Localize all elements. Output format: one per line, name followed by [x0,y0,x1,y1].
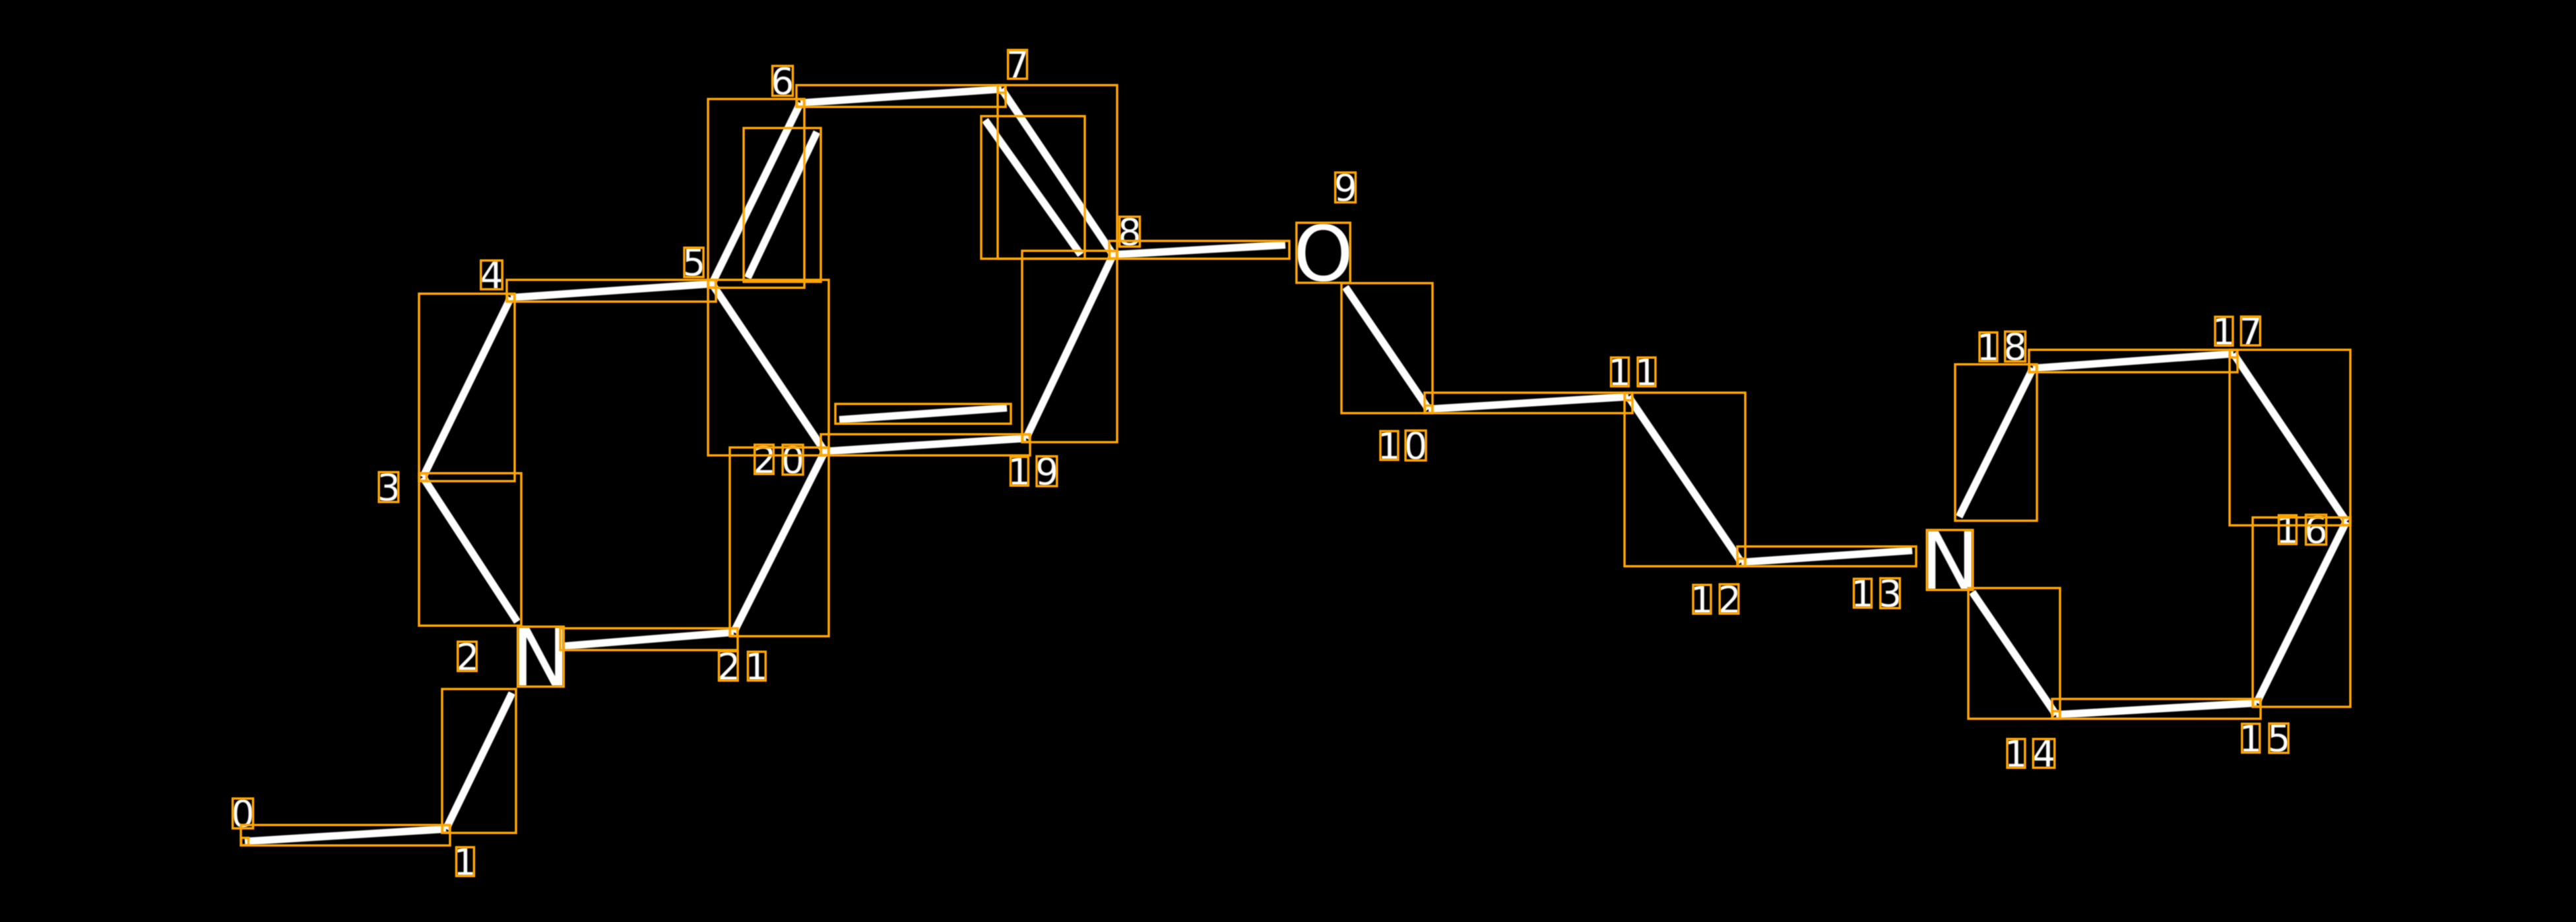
bbox label atom 12 digit 2 [1720,584,1739,613]
bbox atom 12 [1738,559,1745,566]
bbox bond 4-5 [507,280,716,302]
bbox atom 8 [1110,251,1117,259]
bbox bond 12-13 [1737,546,1916,566]
bond 7-8 [1002,89,1113,255]
bbox label atom 16 digit 6 [2306,515,2327,544]
bbox bond 20-5 [708,280,829,455]
bond 0-1 [245,829,446,841]
label atom 3 digit 3 [379,473,397,502]
bond 17-18 [2033,354,2234,368]
bbox bond 5-6 [708,99,804,288]
bbox atom 4 [507,294,515,302]
bbox atom 6 [797,100,804,107]
bbox label atom 20 digit 2 [755,445,774,474]
bbox bond 16-17 [2230,350,2350,525]
bbox double bond inner 7-8 [981,116,1085,259]
double bond inner line 19-20 [839,408,1007,420]
bbox label atom 12 digit 1 [1693,585,1711,614]
bbox label atom 14 digit 4 [2033,739,2054,768]
label atom 13 digit 3 [1881,579,1899,607]
bbox atom 20 [821,448,829,455]
bbox label atom 21 digit 1 [748,652,765,681]
bbox bond 10-11 [1425,393,1632,413]
bond 15-16 [2257,521,2346,703]
bbox label atom 18 digit 8 [2005,331,2026,361]
label atom 18 digit 8 [2006,333,2024,361]
bbox label atom 9 digit 9 [1336,172,1356,202]
bond 2-3 [423,477,517,622]
label atom 13 digit 1 [1855,579,1871,607]
label atom 21 digit 2 [720,652,737,680]
bbox label atom 5 digit 5 [684,247,703,277]
label atom 19 digit 9 [1037,457,1056,486]
bond 13-14 [1972,592,2056,715]
bond 18-13 [1959,368,2033,517]
bbox label atom 1 digit 1 [457,847,474,876]
label atom 21 digit 1 [749,653,765,680]
bbox label atom 13 digit 3 [1881,578,1900,608]
bbox label atom 15 digit 5 [2269,723,2288,752]
bbox double bond inner 5-6 [744,128,821,282]
bbox bond 8-19 [1022,251,1117,442]
bond 19-20 [825,438,1026,451]
bbox label atom 20 digit 0 [783,445,803,475]
bbox atom 19 [1023,435,1030,442]
double bond inner line 7-8 [985,120,1081,255]
bond 9-10 [1345,287,1429,409]
bond 20-5 [712,284,825,451]
bond 11-12 [1628,397,1741,562]
label atom 14 digit 4 [2034,740,2053,767]
bbox bond 18-13 [1955,364,2037,521]
label atom 10 digit 0 [1406,432,1425,460]
label atom 14 digit 1 [2008,740,2024,767]
bbox atom 15 [2253,700,2261,707]
label atom 17 digit 7 [2242,317,2259,345]
label atom 17 digit 1 [2216,317,2232,345]
label atom 20 digit 0 [783,445,802,474]
bond 6-7 [800,89,1002,103]
bbox atom 11 [1625,393,1632,401]
atom 2 symbol N [519,628,563,686]
bbox atom 3 [420,474,427,481]
bond 10-11 [1429,397,1628,409]
bbox bond 21-2 [560,628,738,650]
bbox atom 2 [518,627,564,687]
bond 8-19 [1026,255,1113,438]
bbox label atom 0 digit 0 [233,799,253,828]
label atom 20 digit 2 [756,445,773,473]
bbox label atom 21 digit 2 [719,651,738,680]
bbox atom 10 [1425,406,1433,413]
label atom 4 digit 4 [482,261,501,288]
bbox label atom 17 digit 7 [2241,317,2260,346]
label atom 16 digit 1 [2280,516,2296,543]
bbox bond 3-4 [419,294,515,481]
atom 13 symbol N [1928,531,1972,589]
bbox atom 17 [2230,350,2238,358]
label atom 8 digit 8 [1120,218,1139,246]
bbox label atom 11 digit 1 [1611,358,1629,387]
label atom 6 digit 6 [773,67,792,95]
bond 3-4 [423,298,511,477]
bbox atom 7 [998,86,1006,93]
bbox label atom 8 digit 8 [1120,216,1140,246]
bbox label atom 2 digit 2 [458,642,477,671]
bond 20-21 [734,451,825,632]
bbox label atom 3 digit 3 [379,472,399,502]
label atom 18 digit 1 [1980,333,1997,360]
double bond inner line 5-6 [748,132,817,278]
bbox atom 21 [730,629,738,636]
bbox bond 20-21 [730,447,829,636]
bbox bond 11-12 [1625,393,1745,566]
bbox bond 1-2 [442,689,516,833]
label atom 11 digit 1 [1638,358,1655,385]
label atom 19 digit 1 [1012,457,1028,484]
label atom 2 digit 2 [459,643,476,671]
bbox atom 0 [241,838,249,845]
bond 12-13 [1741,550,1912,562]
label atom 15 digit 1 [2243,725,2259,752]
bbox atom 14 [2053,711,2060,719]
bbox label atom 13 digit 1 [1854,579,1872,608]
bond 4-5 [511,284,712,298]
bond 14-15 [2056,703,2257,715]
bbox label atom 15 digit 1 [2242,724,2260,753]
bond 8-9 [1113,245,1285,255]
bbox label atom 16 digit 1 [2279,515,2297,544]
label atom 11 digit 1 [1612,358,1628,385]
bbox bond 9-10 [1341,283,1433,413]
label atom 12 digit 2 [1720,585,1737,613]
bbox label atom 4 digit 4 [481,261,502,290]
label atom 1 digit 1 [457,848,474,875]
bbox bond 13-14 [1968,588,2060,719]
bond 16-17 [2234,354,2346,521]
label atom 12 digit 1 [1694,585,1710,612]
label atom 5 digit 5 [685,248,703,276]
bbox label atom 19 digit 1 [1011,457,1029,486]
bbox atom 18 [2030,365,2037,372]
bbox atom 9 [1297,223,1351,283]
bbox label atom 7 digit 7 [1008,50,1027,79]
bbox label atom 18 digit 1 [1980,333,1997,362]
bbox label atom 14 digit 1 [2007,739,2025,768]
bbox label atom 10 digit 0 [1405,430,1426,460]
bbox double bond inner 19-20 [835,404,1011,424]
label atom 15 digit 5 [2270,724,2288,752]
bbox atom 1 [443,826,450,833]
bbox bond 8-9 [1109,241,1289,259]
bbox label atom 6 digit 6 [773,66,793,96]
bbox bond 7-8 [998,85,1117,259]
label atom 0 digit 0 [234,799,252,828]
bbox bond 14-15 [2052,699,2261,719]
bbox bond 6-7 [796,85,1006,107]
bbox label atom 19 digit 9 [1037,456,1057,486]
bbox bond 0-1 [241,825,450,845]
atom 9 symbol O [1297,224,1349,282]
label atom 9 digit 9 [1336,174,1355,202]
bbox bond 19-20 [821,434,1030,455]
label atom 7 digit 7 [1009,51,1026,78]
label atom 10 digit 1 [1381,432,1398,459]
bbox atom 16 [2343,518,2350,525]
bond 1-2 [446,693,512,829]
bbox label atom 11 digit 1 [1638,358,1656,387]
bbox atom 13 [1927,530,1973,590]
bbox bond 15-16 [2253,517,2350,707]
bbox label atom 17 digit 1 [2215,317,2233,346]
bbox bond 17-18 [2029,350,2238,372]
bond 5-6 [712,103,800,284]
bbox bond 2-3 [419,473,521,626]
bbox label atom 10 digit 1 [1380,431,1398,460]
label atom 16 digit 6 [2307,515,2325,544]
bbox atom 5 [709,280,716,288]
bond 21-2 [564,632,734,646]
